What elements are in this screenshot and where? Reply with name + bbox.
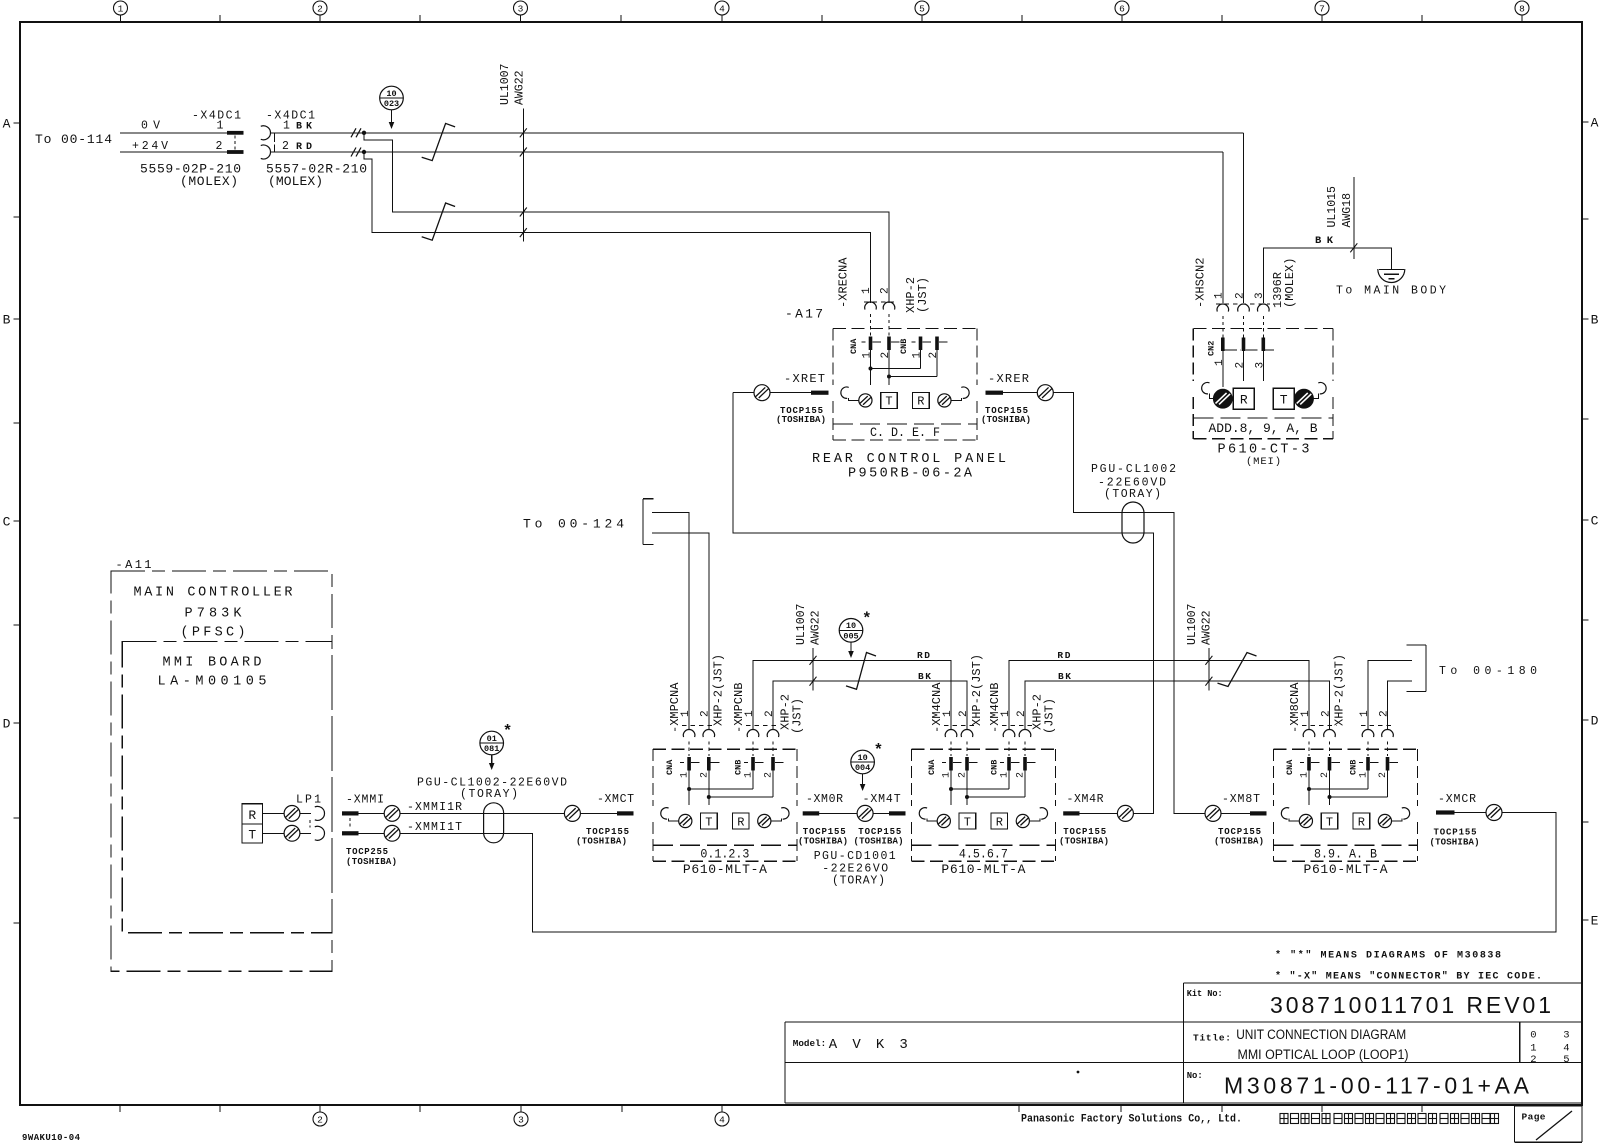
svg-text:2: 2 (764, 710, 776, 717)
fiber -XRET run to -XM4R (733, 393, 1154, 814)
reference flag 10/004 (851, 750, 875, 774)
wire RD pin2 to junction (270, 151, 1223, 153)
svg-text:PGU-CL1002: PGU-CL1002 (1091, 463, 1176, 476)
svg-text:CNA: CNA (1285, 759, 1295, 775)
svg-text:Page: Page (1522, 1112, 1546, 1123)
svg-text:308710011701 REV01: 308710011701 REV01 (1270, 992, 1551, 1018)
svg-text:(TORAY): (TORAY) (460, 788, 518, 801)
svg-text:TOCP155: TOCP155 (1434, 827, 1477, 837)
svg-text:-XMCT: -XMCT (597, 793, 634, 806)
svg-text:AWG22: AWG22 (514, 70, 527, 105)
svg-text:RD: RD (1057, 650, 1070, 661)
wire BK pin1 to junction (270, 132, 1244, 134)
svg-text:XHP-2(JST): XHP-2(JST) (970, 654, 984, 726)
connector pins CNA/CNB inside 8.9. A. B (1307, 757, 1311, 771)
svg-text:-XM4R: -XM4R (1067, 793, 1104, 806)
svg-text:AWG18: AWG18 (1341, 193, 1354, 228)
svg-text:(TORAY): (TORAY) (1104, 488, 1161, 501)
fiber -XMMI1R to -XMCT (400, 812, 565, 814)
wire size leader UL1015 AWG18 (1353, 177, 1355, 259)
fiber -XRER run to -XM8T (1053, 393, 1205, 814)
svg-text:(TOSHIBA): (TOSHIBA) (1430, 837, 1480, 847)
module block 0.1.2.3 outline (653, 748, 797, 750)
svg-text:T: T (705, 815, 712, 829)
svg-text:* "*" MEANS DIAGRAMS OF M30838: * "*" MEANS DIAGRAMS OF M30838 (1275, 950, 1501, 962)
svg-text:2: 2 (216, 140, 223, 153)
box MMI BOARD (122, 642, 332, 933)
svg-text:(MOLEX): (MOLEX) (1283, 258, 1297, 308)
wire BK pair1 (773, 681, 967, 729)
optical connector -XMCR (1436, 810, 1455, 814)
svg-text:Panasonic Factory Solutions Co: Panasonic Factory Solutions Co,, Ltd. (1021, 1114, 1242, 1126)
svg-text:(TORAY): (TORAY) (832, 874, 885, 887)
svg-text:5: 5 (919, 4, 925, 15)
svg-text:2: 2 (1530, 1054, 1536, 1066)
svg-text:1: 1 (1530, 1043, 1536, 1055)
svg-text:R: R (248, 808, 256, 823)
svg-text:2: 2 (282, 140, 289, 153)
reference flag 10/005 (839, 619, 863, 643)
module block 4.5.6.7 outline (911, 748, 1055, 750)
svg-text:-XM8CNA: -XM8CNA (1288, 682, 1302, 733)
svg-text:4: 4 (719, 4, 725, 15)
connector -XMMI TOCP255 (342, 811, 359, 815)
svg-text:1: 1 (283, 120, 290, 133)
svg-text:(TOSHIBA): (TOSHIBA) (346, 857, 397, 867)
svg-text:A: A (3, 117, 11, 132)
svg-text:TOCP155: TOCP155 (1218, 827, 1261, 837)
svg-text:XHP-2(JST): XHP-2(JST) (1332, 654, 1346, 726)
svg-text:CNA: CNA (927, 759, 937, 775)
svg-text:-XMMI1T: -XMMI1T (407, 821, 462, 834)
svg-text:C: C (3, 515, 11, 530)
wire To 00-124 pin2 (652, 533, 709, 729)
svg-text:XHP-2(JST): XHP-2(JST) (712, 654, 726, 726)
column markers 1-8 top (114, 1, 128, 15)
svg-text:4.5.6.7: 4.5.6.7 (959, 846, 1008, 861)
optical connector -XRET (811, 391, 829, 395)
svg-text:1: 1 (912, 352, 924, 359)
svg-text:To 00-124: To 00-124 (523, 517, 624, 532)
svg-text:B: B (3, 313, 11, 328)
junction node 0V branch (362, 131, 366, 135)
branch wire +24V to -XRECNA pin1 (364, 152, 871, 303)
earth ground symbol To MAIN BODY (1379, 269, 1404, 271)
svg-text:4: 4 (719, 1115, 725, 1126)
connector -XM8CNA (1303, 729, 1315, 737)
svg-text:RD: RD (917, 650, 930, 661)
svg-text:2: 2 (1235, 362, 1247, 369)
svg-text:*: * (874, 742, 884, 760)
wire pair3 pin1 to To 00-180 (1368, 661, 1412, 729)
svg-text:AWG22: AWG22 (1201, 610, 1214, 645)
svg-text:2: 2 (958, 710, 970, 717)
svg-text:PGU-CD1001: PGU-CD1001 (814, 850, 896, 863)
optical connector -XM4R (1063, 811, 1079, 815)
svg-text:UL1007: UL1007 (499, 64, 512, 105)
svg-text:BK: BK (918, 671, 931, 682)
svg-text:-XM0R: -XM0R (806, 793, 843, 806)
internal bridge wires of 0.1.2.3 (688, 771, 690, 806)
page box (1515, 1105, 1583, 1107)
svg-text:1: 1 (1214, 292, 1226, 299)
svg-text:UNIT CONNECTION DIAGRAM: UNIT CONNECTION DIAGRAM (1236, 1027, 1406, 1042)
svg-text:D: D (3, 717, 11, 732)
svg-text:1: 1 (861, 287, 873, 294)
svg-text:(TOSHIBA): (TOSHIBA) (981, 415, 1031, 425)
svg-text:-XRET: -XRET (784, 372, 825, 386)
svg-text:UL1007: UL1007 (795, 604, 808, 645)
svg-text:Kit No:: Kit No: (1187, 989, 1223, 999)
svg-text:(MOLEX): (MOLEX) (180, 174, 238, 189)
svg-text:R: R (996, 815, 1003, 829)
svg-text:-XMCR: -XMCR (1438, 793, 1476, 806)
svg-text:-XMPCNA: -XMPCNA (668, 682, 682, 733)
small dot in model box (1077, 1071, 1080, 1074)
svg-text:10: 10 (386, 89, 396, 99)
svg-text:R: R (917, 395, 924, 409)
svg-text:-22E26VO: -22E26VO (822, 862, 888, 875)
svg-text:To 00-114: To 00-114 (35, 132, 112, 147)
svg-text:CN2: CN2 (1207, 341, 1217, 356)
connector pins CNA/CNB inside 4.5.6.7 (949, 757, 953, 771)
wire To 00-124 pin1 (652, 513, 689, 730)
svg-text:2: 2 (700, 710, 712, 717)
connector -X4DC1 male 5559-02P-210 pins (227, 131, 244, 135)
svg-text:R: R (1240, 392, 1248, 407)
svg-text:(MOLEX): (MOLEX) (268, 174, 323, 189)
pin wires CN2 (1222, 351, 1224, 387)
svg-text:2: 2 (317, 4, 323, 15)
connector pins CNA/CNB inside 0.1.2.3 (687, 757, 691, 771)
connector -XHSCN2 1396R MOLEX (1217, 304, 1229, 312)
double-slash marks on power wires (351, 128, 356, 137)
svg-text:TOCP155: TOCP155 (858, 827, 901, 837)
svg-text:BK: BK (1058, 671, 1071, 682)
block P610-CT-3 outline (1193, 328, 1333, 330)
svg-text:4: 4 (1563, 1043, 1569, 1055)
svg-text:CNB: CNB (1349, 760, 1359, 775)
svg-text:3: 3 (518, 4, 524, 15)
svg-text:-XRECNA: -XRECNA (836, 257, 850, 308)
svg-text:7: 7 (1319, 4, 1325, 15)
svg-text:*: * (862, 610, 872, 628)
svg-text:2: 2 (1234, 292, 1246, 299)
optical connector -XRER (986, 391, 1004, 395)
wire size leader UL1007 AWG22 top (522, 109, 524, 242)
title block outline (1184, 982, 1583, 984)
svg-text:CNA: CNA (849, 338, 859, 354)
svg-text:-XMPCNB: -XMPCNB (732, 683, 746, 733)
svg-text:1: 1 (217, 120, 224, 133)
connector XHP-2 right of block 8.9.A.B (1362, 729, 1374, 737)
svg-text:T: T (1326, 815, 1333, 829)
drawing number M30871-00-117-01+AA (1224, 1073, 1530, 1099)
svg-text:(TOSHIBA): (TOSHIBA) (854, 837, 904, 847)
pins CNA/CNB of rear control panel (869, 337, 873, 351)
svg-text:D: D (1591, 714, 1599, 729)
svg-text:2: 2 (928, 352, 940, 359)
connector -XRECNA XHP-2 (865, 302, 877, 310)
optical ports P610-CT-3 (1202, 382, 1210, 393)
svg-text:2: 2 (1016, 710, 1028, 717)
column markers bottom (313, 1112, 327, 1126)
wire BK pair2 (1025, 681, 1330, 729)
svg-text:-XHSCN2: -XHSCN2 (1193, 258, 1207, 308)
internal bridge wires of 4.5.6.7 (950, 771, 952, 806)
svg-text:B: B (1591, 313, 1599, 328)
svg-text:(TOSHIBA): (TOSHIBA) (576, 837, 627, 847)
destination bracket To 00-124 (642, 499, 644, 545)
svg-text:UL1015: UL1015 (1326, 186, 1339, 228)
svg-text:(JST): (JST) (790, 698, 804, 734)
svg-text:CNA: CNA (665, 759, 675, 775)
connector -XM4CNB (1003, 729, 1015, 737)
optical ports rear control panel (841, 387, 849, 398)
svg-text:ADD.8, 9, A, B: ADD.8, 9, A, B (1209, 421, 1318, 436)
svg-text:01: 01 (487, 734, 497, 744)
internal bridge wires of 8.9. A. B (1308, 771, 1310, 806)
svg-text:* "-X" MEANS "CONNECTOR" BY IE: * "-X" MEANS "CONNECTOR" BY IEC CODE. (1275, 971, 1542, 983)
cable group symbol on power pair (422, 123, 455, 160)
fiber -XMMI1T return loop from -XMCR (400, 813, 1556, 933)
MMI optical ports R/T (242, 804, 263, 824)
reference flag 10/023 (380, 86, 404, 110)
svg-text:TOCP155: TOCP155 (586, 827, 629, 837)
svg-text:1: 1 (1214, 359, 1226, 366)
wire 0V down to -XHSCN2 pin2 (1243, 133, 1245, 303)
svg-text:*: * (503, 723, 513, 741)
svg-text:(TOSHIBA): (TOSHIBA) (1214, 837, 1264, 847)
svg-text:3: 3 (1254, 362, 1266, 369)
svg-text:-XM8T: -XM8T (1222, 793, 1260, 806)
svg-text:LA-M00105: LA-M00105 (158, 675, 267, 690)
svg-text:2: 2 (1320, 710, 1332, 717)
svg-text:MAIN CONTROLLER: MAIN CONTROLLER (134, 586, 293, 601)
destination bracket To 00-180 (1425, 645, 1427, 692)
svg-text:(JST): (JST) (1042, 698, 1056, 734)
svg-text:(TOSHIBA): (TOSHIBA) (798, 837, 848, 847)
svg-text:-XM4CNB: -XM4CNB (988, 683, 1002, 733)
svg-text:CNB: CNB (899, 339, 909, 354)
svg-text:0: 0 (1530, 1030, 1536, 1042)
cable marker PGU-CL1002-22E60VD near MMI (484, 803, 504, 843)
cable group symbol pair1 (846, 653, 876, 690)
svg-text:5: 5 (1563, 1054, 1569, 1066)
svg-text:005: 005 (843, 632, 858, 642)
svg-text:MMI OPTICAL LOOP (LOOP1): MMI OPTICAL LOOP (LOOP1) (1238, 1047, 1409, 1062)
optical connectors -XM0R -XM4T (803, 811, 820, 815)
svg-text:R: R (737, 815, 744, 829)
wire BK to earth (1263, 248, 1391, 303)
svg-text:004: 004 (855, 763, 870, 773)
svg-text:(MEI): (MEI) (1246, 456, 1281, 468)
svg-text:P610-MLT-A: P610-MLT-A (941, 862, 1025, 877)
svg-text:AWG22: AWG22 (810, 610, 823, 645)
wire RD pair1 (753, 660, 951, 729)
svg-text:Title:: Title: (1193, 1033, 1231, 1044)
svg-text:C. D. E. F: C. D. E. F (870, 425, 940, 440)
optical ports of 8.9. A. B (1281, 808, 1289, 819)
junction node +24V branch (362, 150, 366, 154)
svg-text:Model:: Model: (793, 1038, 826, 1049)
module block 8.9. A. B outline (1274, 748, 1418, 750)
wire RD pair2 (1009, 660, 1309, 729)
title UNIT CONNECTION DIAGRAM (1236, 1027, 1408, 1062)
svg-text:-XRER: -XRER (988, 372, 1029, 386)
reference flag 01/081 (480, 731, 504, 755)
svg-text:UL1007: UL1007 (1186, 604, 1199, 645)
svg-text:2: 2 (880, 287, 892, 294)
connector -XMPCNB (747, 729, 759, 737)
svg-text:-XM4T: -XM4T (863, 793, 901, 806)
svg-text:MMI BOARD: MMI BOARD (163, 656, 262, 671)
svg-text:M30871-00-117-01+AA: M30871-00-117-01+AA (1224, 1073, 1530, 1099)
row markers A-E left and right (14, 122, 21, 124)
cable group symbol on branch pair (422, 203, 455, 240)
internal bridge wires rear control panel (870, 350, 872, 385)
svg-text:TOCP155: TOCP155 (1063, 827, 1106, 837)
svg-text:CNB: CNB (990, 760, 1000, 775)
wire 0V from To 00-114 (120, 132, 227, 134)
wire +24V down to -XHSCN2 pin1 (1222, 152, 1224, 303)
block -A17 REAR CONTROL PANEL outline (833, 328, 977, 330)
svg-text:No:: No: (1187, 1071, 1203, 1081)
optical ports of 0.1.2.3 (661, 808, 669, 819)
svg-text:E: E (1591, 914, 1599, 929)
svg-text:6: 6 (1119, 4, 1125, 15)
optical connector -XM8T (1205, 805, 1221, 821)
svg-text:081: 081 (484, 744, 499, 754)
svg-text:To 00-180: To 00-180 (1439, 665, 1537, 678)
wire size leader UL1007 AWG22 middle (812, 648, 814, 691)
svg-text:1: 1 (118, 4, 124, 15)
optical ports of 4.5.6.7 (919, 808, 927, 819)
svg-text:8: 8 (1519, 4, 1525, 15)
svg-text:T: T (964, 815, 971, 829)
svg-text:1: 1 (862, 352, 874, 359)
svg-text:3: 3 (1563, 1030, 1569, 1042)
connector -XM4CNA (945, 729, 957, 737)
svg-text:(JST): (JST) (916, 277, 930, 313)
svg-text:-XM4CNA: -XM4CNA (930, 682, 944, 733)
svg-text:TOCP255: TOCP255 (346, 847, 388, 857)
svg-text:CNB: CNB (734, 760, 744, 775)
footer Japanese company name (1280, 1114, 1499, 1124)
svg-text:10: 10 (846, 621, 856, 631)
svg-text:LP1: LP1 (296, 794, 321, 807)
connector -XMPCNA (683, 729, 695, 737)
wire size leader UL1007 AWG22 right (1208, 648, 1210, 691)
svg-text:3: 3 (518, 1115, 524, 1126)
svg-text:0.1.2.3: 0.1.2.3 (700, 846, 749, 861)
svg-text:1: 1 (1359, 710, 1371, 717)
box -A11 MAIN CONTROLLER (111, 571, 332, 971)
svg-text:2: 2 (1378, 710, 1390, 717)
svg-text:3: 3 (1254, 292, 1266, 299)
svg-text:C: C (1591, 514, 1599, 529)
svg-text:8.9. A. B: 8.9. A. B (1314, 846, 1377, 861)
svg-text:2: 2 (880, 352, 892, 359)
svg-text:R: R (1358, 815, 1365, 829)
wire pair3 pin2 to To 00-180 (1388, 681, 1413, 729)
svg-text:T: T (248, 827, 256, 842)
svg-text:T: T (1280, 392, 1288, 407)
svg-text:(TOSHIBA): (TOSHIBA) (776, 415, 826, 425)
svg-text:A: A (1591, 116, 1599, 131)
svg-text:P610-MLT-A: P610-MLT-A (1304, 862, 1388, 877)
svg-text:2: 2 (317, 1115, 323, 1126)
svg-text:9WAKU10-04: 9WAKU10-04 (22, 1133, 81, 1143)
cable marker PGU-CL1002 upper (1122, 502, 1144, 543)
svg-text:P610-MLT-A: P610-MLT-A (683, 862, 767, 877)
svg-text:-XMMI: -XMMI (346, 794, 384, 807)
pins CN2 of P610-CT-3 (1221, 338, 1225, 352)
kit number 308710011701 REV01 (1270, 992, 1551, 1018)
connector -X4DC1 female 5557-02R-210 sockets (261, 126, 271, 140)
svg-text:TOCP155: TOCP155 (803, 827, 846, 837)
svg-text:10: 10 (857, 753, 867, 763)
svg-text:023: 023 (384, 99, 399, 109)
wire +24V from To 00-114 (120, 151, 227, 153)
svg-text:-XMMI1R: -XMMI1R (407, 801, 462, 814)
optical connector -XMCT (617, 811, 634, 815)
branch wire 0V to -XRECNA pin2 (364, 133, 889, 303)
svg-text:(TOSHIBA): (TOSHIBA) (1059, 837, 1109, 847)
svg-text:T: T (885, 395, 892, 409)
cable group symbol pair2 (1218, 653, 1257, 687)
